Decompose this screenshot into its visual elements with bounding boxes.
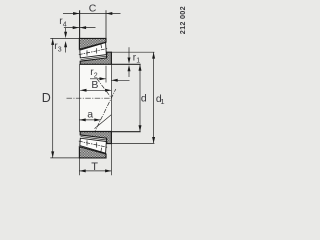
svg-text:3: 3 <box>58 46 62 53</box>
extension line cup back face top <box>79 10 81 38</box>
leader line bottom <box>95 115 112 129</box>
bearing bore interior (white) <box>79 64 111 131</box>
svg-text:B: B <box>91 79 98 91</box>
dimension B <box>80 79 111 92</box>
svg-text:1: 1 <box>160 97 164 106</box>
extension line d top (bore) <box>111 63 140 65</box>
svg-text:a: a <box>87 109 93 121</box>
svg-text:212 002: 212 002 <box>178 6 187 34</box>
inner ring (cone) top section <box>80 52 111 64</box>
pressure line top <box>97 79 112 98</box>
svg-text:C: C <box>89 2 97 14</box>
extension line cup front face top <box>105 10 107 38</box>
dimension C <box>63 2 121 15</box>
extension line cup back face middle <box>78 64 80 131</box>
tapered roller bottom <box>79 137 108 154</box>
dimension r4 <box>59 16 95 29</box>
extension line d1 bottom <box>111 142 154 144</box>
extension line cone back face bottom <box>110 144 112 176</box>
tapered roller top <box>79 43 108 60</box>
extension line D top <box>50 37 79 39</box>
dimension d <box>139 64 147 131</box>
extension line cone back face middle <box>110 64 112 131</box>
tapered roller bearing dimension drawing <box>0 0 200 179</box>
dimension d1 <box>152 52 164 143</box>
dimension r1 <box>128 47 141 77</box>
svg-text:T: T <box>91 161 98 173</box>
svg-text:1: 1 <box>136 58 140 65</box>
dimension a <box>79 109 100 122</box>
extension line d bottom (bore) <box>111 131 140 133</box>
svg-text:D: D <box>42 91 51 105</box>
svg-text:4: 4 <box>63 22 67 29</box>
outer ring (cup) bottom section <box>79 147 106 158</box>
axis centerline <box>67 97 112 99</box>
dimension D <box>42 39 54 158</box>
extension line D bottom <box>50 157 79 159</box>
pressure line bottom <box>94 89 116 134</box>
svg-text:d: d <box>141 92 147 104</box>
dimension T <box>79 161 111 173</box>
inner ring (cone) bottom section <box>80 132 111 144</box>
dimension r3 <box>54 28 67 53</box>
outer ring (cup) top section <box>79 38 106 49</box>
extension line cup back face bottom <box>78 158 80 175</box>
extension line cup front face (r2) <box>105 66 107 83</box>
arrow at cone back face (r2 pair) <box>111 79 129 82</box>
extension line d1 top <box>111 51 154 53</box>
dimension r2 <box>90 67 106 80</box>
